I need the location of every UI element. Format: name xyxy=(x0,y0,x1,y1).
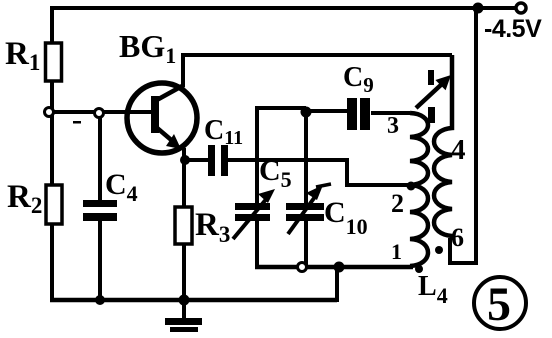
capacitor C9 xyxy=(347,98,370,130)
wire top supply rail xyxy=(50,6,516,10)
wire tank top line to C9 xyxy=(306,109,348,113)
capacitor C10 (variable) xyxy=(286,184,331,234)
ground xyxy=(165,300,202,332)
node dot coil tap 2 xyxy=(407,182,416,191)
wire left vertical (R1/R2 branch) xyxy=(50,6,54,300)
node dot R3 at ground rail xyxy=(179,295,190,306)
wire emitter to C11 xyxy=(184,158,208,162)
capacitor C4 xyxy=(83,200,117,221)
inductor L4 left winding (pins 3,2,1) xyxy=(410,113,428,266)
svg-text:1: 1 xyxy=(391,239,402,264)
wire C4 branch lower xyxy=(98,220,102,300)
node dot emitter/C11 xyxy=(180,155,190,165)
inductor L4 right winding (pins 4,6) xyxy=(434,55,452,240)
svg-text:4: 4 xyxy=(451,134,466,166)
svg-text:5: 5 xyxy=(487,278,511,331)
figure number 5 xyxy=(474,277,526,331)
polarity dot winding 6 xyxy=(435,246,443,254)
wire bottom ground rail xyxy=(50,298,337,303)
svg-text:C11: C11 xyxy=(204,115,243,149)
capacitor C5 (variable) xyxy=(233,189,275,239)
svg-text:-4.5V: -4.5V xyxy=(484,15,542,43)
wire tank bottom line to coil pin 1 xyxy=(255,265,413,270)
wire C9 to coil pin 3 xyxy=(371,111,410,115)
svg-text:3: 3 xyxy=(387,113,399,139)
wire C4 branch upper xyxy=(98,113,102,201)
terminal -4.5V xyxy=(516,3,526,13)
wire tank left vertical upper (C5 branch) xyxy=(257,108,306,204)
wire collector top line xyxy=(181,53,452,57)
svg-text:C10: C10 xyxy=(324,196,368,239)
transistor BG1 xyxy=(127,83,197,153)
node open circle at R1/R2/base junction xyxy=(45,108,54,117)
node open circle on tank bottom line xyxy=(298,263,307,272)
wire riser from ground rail to tank bottom xyxy=(335,267,339,302)
node dot supply rail junction xyxy=(473,3,484,14)
svg-text:6: 6 xyxy=(451,223,464,252)
adjustable core dashed line xyxy=(428,70,435,123)
node dot C4 at ground rail xyxy=(95,295,105,305)
node open circle at C4/base junction xyxy=(95,109,104,118)
wire emitter drop to R3 xyxy=(182,148,186,207)
wire R3 to ground rail xyxy=(182,244,186,300)
resistor R3 xyxy=(175,207,192,244)
svg-text:L4: L4 xyxy=(418,271,448,308)
node dot tank top / C10 xyxy=(301,107,312,118)
wire pin 6 to supply riser xyxy=(450,8,476,263)
wire C10 branch upper xyxy=(304,110,308,203)
svg-text:2: 2 xyxy=(391,189,404,218)
wire collector riser xyxy=(181,55,185,87)
resistor R1 xyxy=(46,43,62,81)
wire C11 to coil tap 2 xyxy=(228,158,410,185)
svg-text:R2: R2 xyxy=(7,179,42,218)
svg-text:C4: C4 xyxy=(105,168,138,206)
adjustable core arrow xyxy=(416,75,451,108)
svg-text:BG1: BG1 xyxy=(119,28,176,68)
svg-text:R1: R1 xyxy=(5,36,40,75)
speckle near base wire xyxy=(73,121,81,124)
node dot tank bottom / ground riser xyxy=(334,262,345,273)
capacitor C11 xyxy=(208,145,228,176)
polarity dot winding 1 xyxy=(415,265,423,273)
wire base line xyxy=(52,110,152,114)
wire C10 branch lower xyxy=(304,220,308,267)
wire tank left vertical lower xyxy=(255,219,259,269)
svg-text:C9: C9 xyxy=(343,62,374,97)
svg-text:R3: R3 xyxy=(195,207,230,247)
resistor R2 xyxy=(46,185,62,224)
